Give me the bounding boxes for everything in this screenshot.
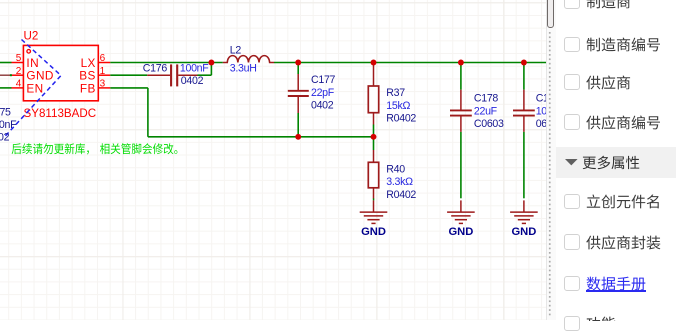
U2 pin 1 (BS) stub and pin number [98,66,110,77]
svg-text:GND: GND [511,226,536,238]
sidebar checkbox row 功能 (clipped at bottom) [564,316,580,331]
svg-text:5: 5 [16,53,22,64]
wire to U2 pin 4 EN (from left edge) [0,87,12,89]
sidebar checkbox row 制造商 [564,0,580,9]
wire FB net horizontal run [148,136,374,138]
svg-text:R40: R40 [386,163,405,175]
wire to U2 pin 5 IN (from left edge) [0,62,12,64]
green annotation note text [12,143,89,154]
svg-text:SY8113BADC: SY8113BADC [24,107,97,120]
svg-text:0402: 0402 [0,132,10,144]
U2 pin 2 (GND) stub and pin number [12,66,24,77]
sidebar checkbox row 供应商封装 [564,234,580,250]
sidebar section header 更多属性 [556,147,676,178]
svg-text:3.3kΩ: 3.3kΩ [386,176,413,188]
wire LX node: U2 pin 6 to L2 [110,62,223,64]
wire BS: U2 pin 1 to C176 [110,74,147,76]
wire VOUT node: L2 to right edge [274,62,546,64]
svg-text:1: 1 [100,66,106,77]
ground GND under C178 [447,200,475,238]
green annotation note text (second half) [100,143,178,154]
svg-text:22uF: 22uF [474,105,498,117]
svg-text:2: 2 [16,66,22,77]
wire C176 to LX node (up) [198,63,212,76]
wire to U2 pin 2 GND (dark red net) [0,74,12,76]
svg-text:C177: C177 [311,74,336,86]
svg-text:GND: GND [361,226,386,238]
svg-text:3: 3 [100,79,106,90]
svg-text:15kΩ: 15kΩ [386,100,410,112]
svg-text:0402: 0402 [311,100,334,112]
capacitor C179 (output, vertical, clipped at right) [513,63,535,199]
svg-text:EN: EN [26,81,43,95]
inductor L2 [223,56,274,63]
svg-text:FB: FB [80,81,96,95]
svg-text:100nF: 100nF [0,119,17,131]
sidebar checkbox row 供应商编号 [564,114,580,130]
selection/diff marker (blue dashed) over U2 [4,40,62,139]
capacitor C177 (feedforward, vertical) [288,63,309,137]
canvas vertical scrollbar track [546,0,556,320]
wire FB: U2 pin 3 to FB net [110,88,148,137]
svg-text:GND: GND [448,226,473,238]
U2 pin 6 (LX) stub and pin number [98,53,110,64]
svg-text:U2: U2 [24,30,39,43]
capacitor C176 (bootstrap, horizontal) [147,64,197,86]
svg-text:100nF: 100nF [180,63,209,75]
ground GND under C179 [510,200,538,238]
U2 pin 3 (FB) stub and pin number [98,79,110,90]
resistor R40 (feedback bottom) [368,137,378,201]
IC U2 (SY8113BADC buck converter) symbol body [23,45,98,100]
svg-text:C178: C178 [474,93,499,105]
capacitor C178 (output, vertical) [450,63,472,199]
resistor R37 (feedback top) [368,63,378,137]
junction FB-C177 [295,134,301,140]
capacitor C175 labels (partially visible at left edge) [0,106,17,143]
junction VOUT-C177 [295,60,301,66]
svg-text:6: 6 [100,53,106,64]
svg-text:4: 4 [16,79,22,90]
svg-text:R0402: R0402 [386,189,416,201]
svg-text:L2: L2 [230,44,242,56]
svg-text:R0402: R0402 [386,113,416,125]
svg-text:C176: C176 [143,63,168,75]
junction FB-R37/R40 [371,134,377,140]
sidebar checkbox row 立创元件名 [564,194,580,210]
sidebar checkbox row 供应商 [564,74,580,90]
junction VOUT-R37 [371,60,377,66]
junction VOUT-C179 [521,60,527,66]
junction VOUT-C178 [458,60,464,66]
sidebar checkbox row 数据手册 (datasheet link) [564,276,580,292]
properties sidebar [556,0,676,320]
U2 pin 5 (IN) stub and pin number [12,53,24,64]
ground GND under R40 [360,200,388,238]
svg-text:C175: C175 [0,106,11,118]
svg-text:R37: R37 [386,87,405,99]
svg-text:3.3uH: 3.3uH [230,63,257,75]
junction LX-C176 [208,60,214,66]
svg-text:C0603: C0603 [474,118,504,130]
svg-text:0402: 0402 [181,75,204,87]
svg-text:22pF: 22pF [311,87,335,99]
sidebar checkbox row 制造商编号 [564,37,580,53]
scrollbar thumb [547,0,553,28]
U2 pin 4 (EN) stub and pin number [12,79,24,90]
